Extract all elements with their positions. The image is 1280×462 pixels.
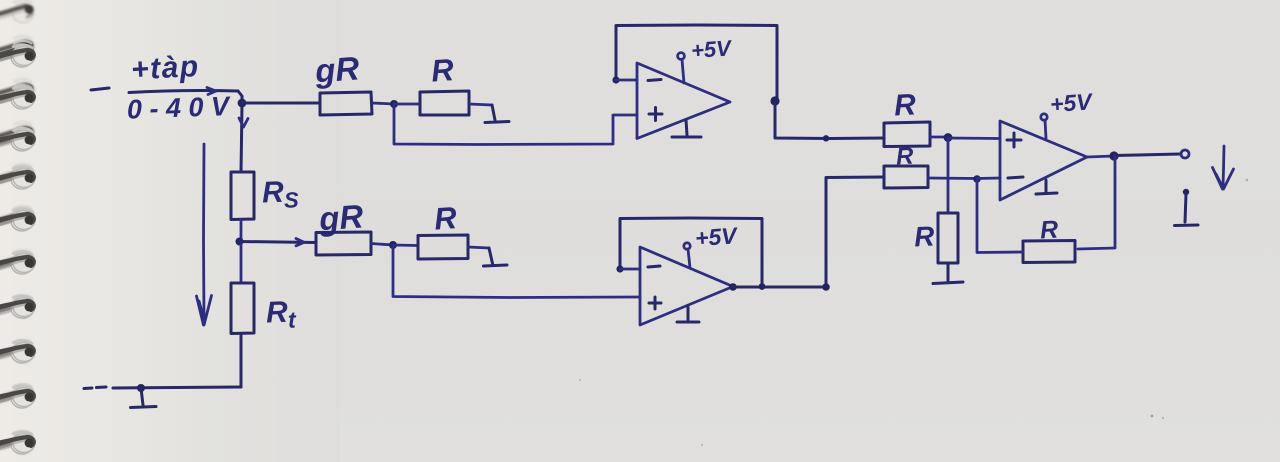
wire node C down to grounding resistor R — [947, 138, 950, 214]
wire U3 output to node E — [1087, 156, 1114, 157]
node E (U3 output junction dot) — [1109, 151, 1118, 160]
ground G1 (after R top) — [485, 105, 509, 123]
U1 feedback wire loop (output to - input) — [616, 25, 777, 100]
node B junction dot (between gR and R top) — [390, 100, 398, 108]
U1 feedback junction dot at - input — [612, 76, 619, 83]
wire node E to output terminal — [1114, 154, 1180, 156]
U2 inverting input minus sign — [648, 266, 660, 267]
resistor gR top (box) — [320, 92, 372, 115]
label R (feedback resistor) — [1039, 216, 1059, 245]
svg-text:gR: gR — [313, 49, 361, 89]
U1 output node dot — [770, 96, 779, 105]
svg-text:+tàp: +tàp — [130, 50, 200, 87]
wire Rt down to bottom return wire — [240, 334, 243, 388]
resistor Rs (vertical box) — [231, 172, 254, 220]
wire node G to resistor gR (bottom row) — [239, 242, 316, 243]
wire gR to node H — [371, 244, 393, 246]
resistor R to ground (vertical box) — [938, 213, 958, 263]
wire node D to U3 - input — [977, 177, 1000, 180]
minus terminal marks (bottom left) — [84, 387, 106, 389]
ground G2 (after R bottom) — [484, 248, 508, 266]
wire node B to resistor R top — [394, 103, 420, 106]
U2 non-inverting input plus sign — [649, 297, 661, 309]
bottom return wire to minus terminal — [113, 387, 241, 388]
wire node G to resistor Rt — [240, 242, 243, 284]
wire node A down to resistor Rs — [241, 103, 242, 172]
wire node B down and right to op-amp U1 + input — [394, 104, 637, 145]
U1 inverting input minus sign — [648, 80, 661, 81]
svg-text:R: R — [433, 200, 458, 237]
+5V supply terminal of U2 (circle and stub) — [684, 243, 690, 268]
arrow tick on node G wire — [296, 239, 304, 246]
op-amp U3 triangle — [1000, 121, 1087, 200]
label 0-40V (input voltage range) — [126, 91, 237, 125]
arrow tick on vertical wire below node A — [239, 118, 248, 127]
current direction arrow (long, pointing down) — [197, 144, 212, 325]
svg-text:R: R — [893, 88, 917, 122]
op-amp U2 triangle — [640, 247, 733, 325]
output terminal (open circle) — [1181, 150, 1189, 158]
wire R to node C — [930, 136, 948, 139]
wire node H down and right to op-amp U2 + input — [393, 245, 640, 298]
junction tick dot on U1 output wire — [823, 135, 829, 141]
U3 feedback wire from node E down to feedback resistor R — [1078, 157, 1115, 249]
ground of U2 (below triangle) — [677, 307, 699, 322]
resistor R into U3 + input (box) — [884, 122, 930, 147]
resistor R bottom (box) — [418, 235, 468, 259]
op-amp U1 triangle — [637, 63, 730, 139]
node H junction dot (between gR and R bottom) — [389, 241, 397, 249]
wire Rs to node G — [240, 220, 243, 242]
svg-text:0-40V: 0-40V — [126, 91, 237, 125]
node D junction dot (U3 - input node) — [973, 175, 981, 183]
ground node dot on bottom wire — [137, 384, 145, 392]
wire U1 box to triangle - input — [616, 79, 637, 82]
U3 non-inverting input plus sign — [1007, 133, 1021, 147]
label R (grounding resistor) — [913, 220, 936, 252]
label Rt — [265, 295, 297, 333]
resistor R into U3 - input (box) — [884, 166, 928, 188]
resistor R top (box) — [420, 91, 469, 115]
svg-text:+5V: +5V — [1049, 88, 1094, 117]
resistor Rt (vertical box) — [231, 283, 254, 334]
resistor gR bottom (box) — [316, 232, 371, 255]
label +5V for U1 — [690, 35, 734, 63]
wire node H to resistor R bottom — [393, 244, 418, 247]
arrow tick on input wire — [207, 88, 216, 95]
svg-text:R: R — [430, 52, 455, 89]
wire gR to node B — [372, 103, 394, 104]
wire U2 box to triangle - input — [620, 268, 640, 271]
wire R to node D — [928, 177, 977, 180]
wire U1 output down and right to resistor R (U3 + input) — [775, 102, 884, 139]
wire U2 output to feedback corner and node F — [733, 286, 826, 289]
wire from U2 output rising to R (U3 - input) — [826, 177, 884, 287]
label +tap (input source name) — [130, 50, 200, 87]
label +5V for U2 — [694, 222, 739, 251]
U1 non-inverting input plus sign — [649, 108, 662, 121]
node A (input node junction dot) — [238, 99, 247, 108]
wire node A to resistor gR (top row) — [242, 102, 320, 105]
label gR (bottom) — [317, 197, 365, 237]
svg-text:+5V: +5V — [694, 222, 739, 251]
minus terminal label of input source — [91, 88, 109, 90]
svg-text:+5V: +5V — [690, 35, 734, 63]
label R (top row) — [430, 52, 455, 89]
label +5V for U3 — [1049, 88, 1094, 117]
node G junction dot (divider tap) — [236, 238, 244, 246]
feedback resistor R of U3 (box) — [1023, 241, 1075, 263]
wire corner from fraction bar down to node A — [238, 91, 242, 103]
output direction arrow (down, right of terminal) — [1213, 146, 1234, 189]
ground of U3 (below triangle) — [1036, 180, 1057, 194]
label R (into U3 - input) — [895, 143, 914, 171]
wire R top to ground stub — [469, 104, 492, 105]
ground symbol on bottom return wire — [131, 388, 157, 408]
U2 feedback wire loop (output to - input) — [620, 218, 762, 285]
small ground terminal below output circle — [1175, 189, 1199, 226]
+5V supply terminal of U3 (circle and stub) — [1041, 114, 1047, 138]
wire R bottom to ground stub — [468, 247, 489, 248]
ground below grounding resistor R — [933, 263, 963, 284]
ground of U1 (below triangle) — [672, 120, 701, 137]
U2 feedback junction dot at - input — [616, 265, 623, 272]
node C junction dot — [944, 133, 953, 142]
wire node C to U3 + input — [948, 137, 1000, 140]
label Rs — [261, 175, 299, 213]
label R (bottom row) — [433, 200, 458, 237]
label gR (top) — [313, 49, 361, 89]
+5V supply terminal of U1 (circle and stub) — [678, 53, 685, 83]
wire input top (fraction bar) from source to node A — [129, 91, 238, 93]
U3 inverting input minus sign — [1008, 177, 1023, 178]
node F junction dot (U2 output wire corner) — [822, 283, 830, 291]
wire feedback resistor to node D vertical — [977, 179, 1023, 253]
svg-text:R: R — [913, 220, 936, 252]
U2 output node dot at apex — [729, 283, 737, 291]
junction dot where U2 feedback meets output — [759, 283, 766, 290]
label R (into U3 + input) — [893, 88, 917, 122]
